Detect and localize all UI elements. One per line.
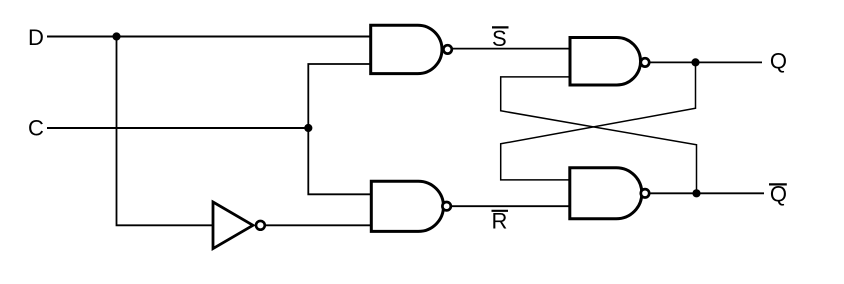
wire D input [47, 36, 371, 38]
wire R-bar: NAND2 output to NAND4 lower input [452, 205, 570, 207]
wire Q feedback to NAND5 upper input [501, 62, 696, 179]
junction dot C node [304, 124, 312, 132]
wire C to NAND1 lower input [308, 64, 371, 128]
svg-text:S: S [492, 26, 507, 51]
svg-text:R: R [492, 209, 508, 234]
junction dot Q-bar node [692, 189, 700, 197]
svg-text:D: D [28, 25, 44, 50]
junction dot Q node [691, 58, 699, 66]
nand gate U2 (top left) [371, 25, 452, 73]
nand gate U3 (bottom left) [371, 181, 451, 231]
wire Q-bar output [651, 192, 765, 194]
wire Q-bar feedback to NAND4 lower input [501, 77, 697, 193]
inverter U1 [213, 202, 265, 249]
wire inverter output to NAND2 lower input [266, 224, 372, 226]
label Q-bar with overline [769, 182, 787, 207]
wire C to NAND2 upper input [308, 128, 371, 194]
svg-text:C: C [28, 116, 44, 141]
nand gate U4 (top right) [570, 38, 649, 86]
label S with overline [492, 26, 509, 51]
wire S-bar: NAND1 output to NAND3 upper input [453, 48, 571, 50]
wire C input [47, 127, 308, 129]
junction dot D node [112, 32, 120, 40]
svg-text:Q: Q [770, 49, 787, 74]
wire D to inverter input [117, 37, 214, 226]
label R with overline [492, 209, 509, 234]
wire Q output [651, 61, 763, 63]
nand gate U5 (bottom right) [570, 168, 649, 219]
